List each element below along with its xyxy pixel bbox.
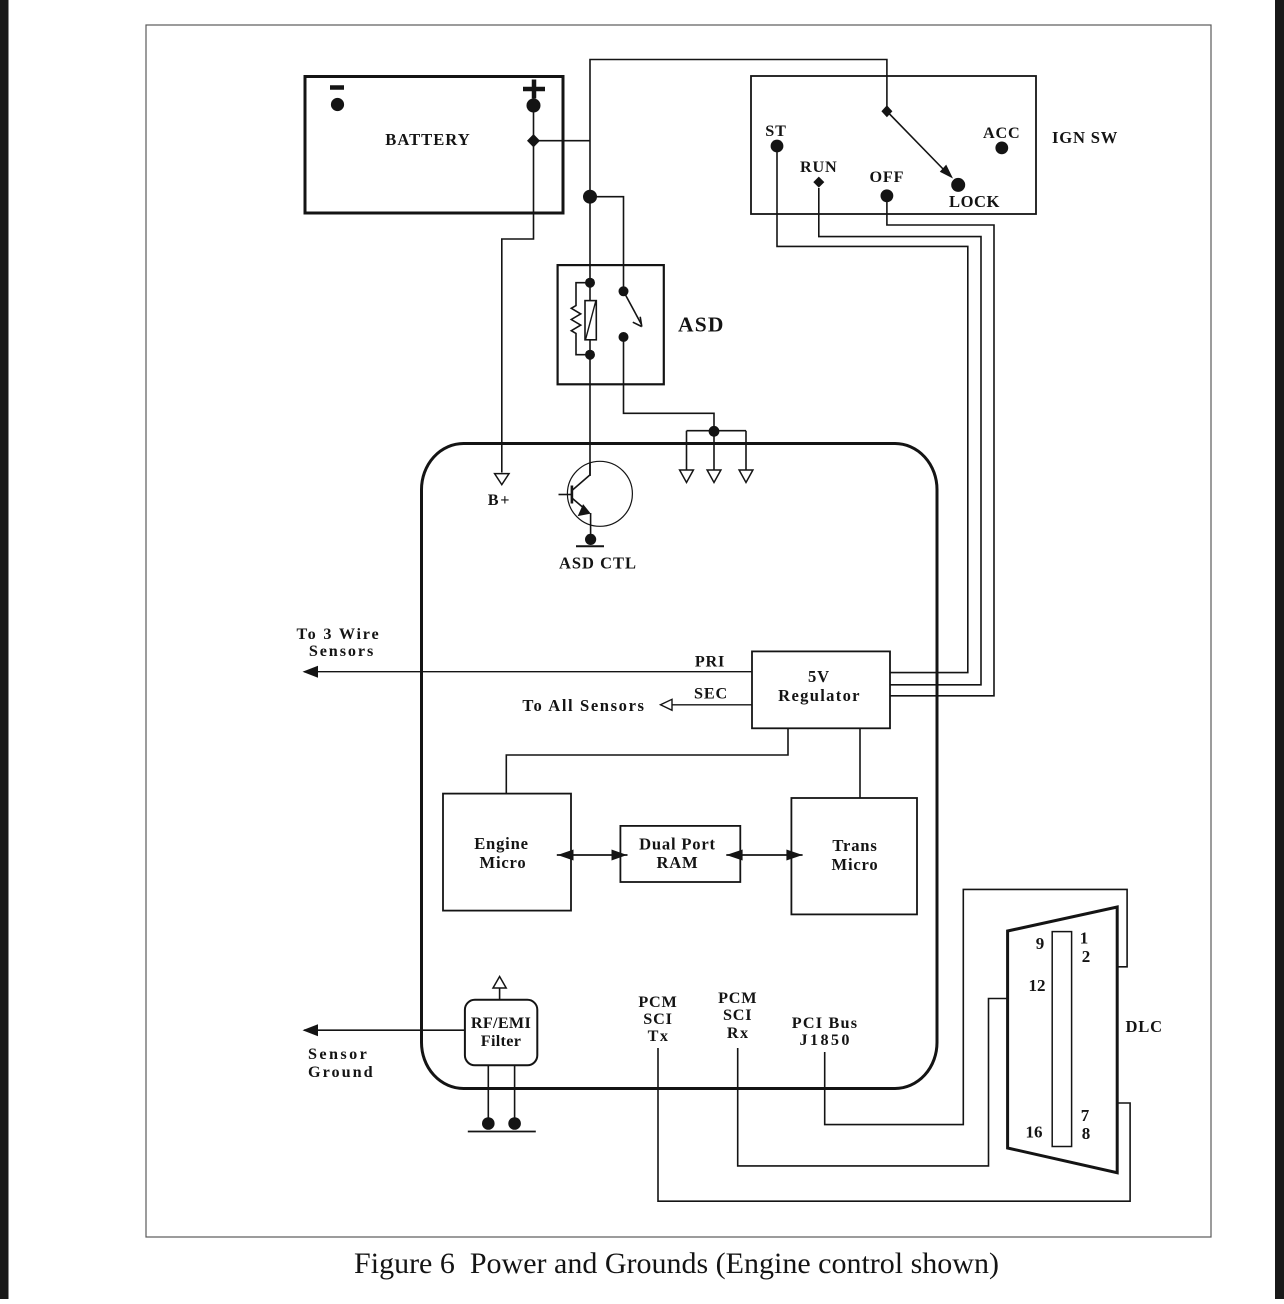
chassis ground bar: [468, 1131, 536, 1133]
ASD relay resistor: [571, 283, 590, 355]
battery B1: [305, 77, 563, 214]
svg-text:RF/EMI: RF/EMI: [471, 1014, 531, 1032]
wire relay coil to ASD CTL transistor: [589, 355, 591, 476]
svg-text:SCI: SCI: [723, 1006, 752, 1024]
IGN SW ST terminal: [765, 122, 786, 152]
ASD coil bottom junction dot: [585, 350, 595, 360]
ground dot 1: [482, 1117, 495, 1130]
svg-text:Figure 6 Power and Grounds (E: Figure 6 Power and Grounds (Engine contr…: [354, 1247, 999, 1280]
svg-text:Sensors: Sensors: [309, 642, 375, 660]
svg-text:PCM: PCM: [638, 993, 677, 1011]
IGN SW OFF terminal: [870, 168, 905, 202]
svg-text:ASD: ASD: [678, 313, 725, 337]
svg-text:PCI Bus: PCI Bus: [792, 1014, 858, 1032]
svg-text:RUN: RUN: [800, 158, 837, 176]
diagram frame: [146, 25, 1211, 1237]
svg-text:PCM: PCM: [718, 989, 757, 1007]
svg-text:Sensor: Sensor: [308, 1045, 369, 1063]
svg-text:Tx: Tx: [648, 1027, 670, 1045]
svg-text:IGN SW: IGN SW: [1052, 128, 1118, 147]
svg-text:7: 7: [1081, 1106, 1090, 1125]
RF/EMI filter: [465, 1000, 537, 1066]
open ground arrow 3: [739, 470, 753, 483]
ASD relay coil: [585, 283, 596, 355]
wire PRI to 3 wire sensors: [304, 671, 752, 673]
open ground arrow 2: [707, 470, 721, 483]
svg-text:Trans: Trans: [832, 836, 877, 855]
To 3 Wire Sensors label: [297, 625, 381, 660]
junction battery plus node: [527, 134, 540, 147]
svg-text:PRI: PRI: [695, 653, 725, 671]
svg-text:Ground: Ground: [308, 1063, 375, 1081]
svg-text:J1850: J1850: [799, 1031, 851, 1049]
svg-text:BATTERY: BATTERY: [385, 130, 470, 149]
wire battery plus to B+ input: [502, 106, 534, 473]
ASD coil top junction dot: [585, 278, 595, 288]
ASD relay box: [558, 265, 725, 384]
svg-text:Rx: Rx: [727, 1024, 750, 1042]
junction dot ASD feed node: [583, 190, 597, 204]
ground arrow bar: [687, 431, 747, 470]
svg-text:RAM: RAM: [656, 853, 698, 872]
svg-text:ASD CTL: ASD CTL: [559, 554, 637, 573]
svg-text:9: 9: [1036, 934, 1045, 953]
svg-text:DLC: DLC: [1126, 1017, 1163, 1036]
DLC connector: [1008, 907, 1118, 1173]
IGN SW pivot node: [881, 105, 892, 117]
engine micro U2: [443, 794, 571, 911]
left page border bar: [0, 0, 9, 1299]
svg-text:1: 1: [1080, 929, 1089, 948]
5V regulator U1: [752, 651, 890, 728]
B+ input arrow: [488, 474, 512, 509]
wire PCI Bus J1850 to DLC pin 2: [825, 889, 1127, 1124]
svg-text:2: 2: [1082, 947, 1091, 966]
wire RUN to 5V regulator: [819, 188, 981, 685]
junction dot ground arrow bar: [709, 426, 720, 437]
svg-text:Dual Port: Dual Port: [639, 835, 716, 854]
svg-text:SCI: SCI: [643, 1010, 672, 1028]
PCM SCI Rx label: [718, 989, 757, 1042]
svg-text:Engine: Engine: [474, 834, 529, 853]
transistor Q1 ASD CTL: [559, 461, 633, 539]
svg-text:B+: B+: [488, 491, 512, 509]
bus arrow engine micro to RAM: [557, 850, 628, 861]
wire ASD node vertical / top feed to IGN SW: [590, 60, 887, 283]
PCI Bus J1850 label: [792, 1014, 858, 1049]
battery plus symbol: [523, 80, 545, 113]
svg-text:Micro: Micro: [832, 855, 879, 874]
wire sensor ground: [304, 1029, 465, 1031]
PCM module outline: [422, 444, 938, 1089]
trans micro U4: [791, 798, 917, 914]
IGN SW ACC terminal: [983, 124, 1020, 154]
svg-text:Filter: Filter: [481, 1032, 521, 1050]
svg-text:ACC: ACC: [983, 124, 1020, 142]
svg-text:8: 8: [1082, 1124, 1091, 1143]
sensor ground label: [308, 1045, 375, 1081]
svg-text:Micro: Micro: [480, 853, 527, 872]
IGN SW box: [751, 76, 1118, 214]
wire regulator to trans micro: [859, 728, 861, 798]
battery minus symbol: [330, 88, 344, 112]
svg-text:ST: ST: [765, 122, 786, 140]
wire battery plus to ASD node: [534, 140, 591, 142]
open arrow to all sensors: [661, 699, 673, 710]
wire relay switch output to ground arrows: [624, 337, 715, 431]
svg-text:Regulator: Regulator: [778, 686, 861, 705]
svg-text:5V: 5V: [808, 667, 830, 686]
svg-text:OFF: OFF: [870, 168, 905, 186]
ground dot 2: [508, 1117, 521, 1130]
dual port RAM U3: [620, 826, 740, 882]
wire regulator to engine micro: [506, 728, 788, 793]
wire PCM SCI Rx to DLC pin 12: [738, 999, 1008, 1166]
IGN SW RUN terminal: [800, 158, 837, 188]
svg-text:16: 16: [1026, 1123, 1043, 1142]
svg-text:To 3 Wire: To 3 Wire: [297, 625, 381, 643]
filter up arrow: [493, 977, 506, 1000]
filter ground lead 1: [487, 1065, 489, 1124]
svg-text:To All Sensors: To All Sensors: [522, 696, 645, 715]
wire PCM SCI Tx to DLC pin 7: [658, 1048, 1130, 1201]
solid arrow sensor ground: [303, 1024, 319, 1036]
bus arrow RAM to trans micro: [726, 850, 802, 861]
right page border bar: [1275, 0, 1284, 1299]
wire ST to 5V regulator: [777, 152, 968, 673]
svg-text:SEC: SEC: [694, 685, 728, 703]
wire OFF to 5V regulator: [887, 202, 994, 696]
open ground arrow 1: [680, 470, 694, 483]
filter ground lead 2: [514, 1065, 516, 1124]
wire node to relay switch contact: [590, 197, 624, 292]
IGN SW LOCK terminal: [949, 178, 1000, 211]
PCM SCI Tx label: [638, 993, 677, 1045]
svg-text:LOCK: LOCK: [949, 192, 1000, 211]
ASD relay switch: [619, 286, 642, 342]
IGN SW rotor arrow to LOCK: [887, 111, 953, 178]
solid arrow to 3 wire sensors: [303, 666, 319, 678]
ASD CTL emitter bar: [576, 545, 604, 547]
svg-text:12: 12: [1029, 976, 1046, 995]
ASD CTL emitter dot: [585, 534, 596, 545]
wire SEC to all sensors: [672, 704, 752, 706]
